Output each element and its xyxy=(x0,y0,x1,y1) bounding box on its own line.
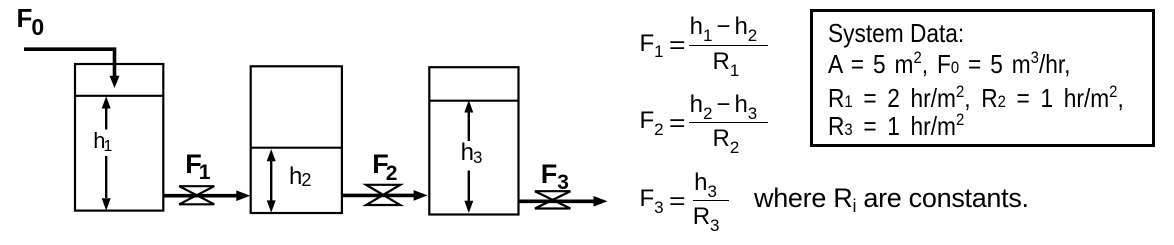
arrowhead flow F3 xyxy=(594,196,608,207)
liquid level line tank 2 xyxy=(251,147,342,149)
data line 4 xyxy=(828,113,964,143)
tank T3 xyxy=(429,67,518,214)
h2 gauge double arrow xyxy=(270,154,272,207)
label F1 xyxy=(185,151,210,178)
equation 3 lhs: F3 = xyxy=(640,187,683,211)
arrowhead flow F2 xyxy=(414,190,428,201)
h3 gauge arrow up segment xyxy=(468,106,470,141)
label F2 xyxy=(372,151,397,178)
arrowhead h1 up xyxy=(102,96,111,108)
arrowhead h2 up xyxy=(267,149,276,161)
data line 2 xyxy=(828,51,1070,81)
label h3 xyxy=(461,141,483,165)
arrowhead h3 up xyxy=(464,100,473,112)
system data box xyxy=(810,9,1155,147)
valve V3 xyxy=(535,191,571,208)
tank T2 xyxy=(251,66,342,213)
wire: flow F1 from tank1 to tank2 xyxy=(163,194,238,198)
arrowhead h3 down xyxy=(464,201,473,213)
wire: flow F2 from tank2 to tank3 xyxy=(342,194,415,198)
valve V2 xyxy=(366,185,400,205)
label F0 xyxy=(17,5,45,31)
arrowhead: F0 inflow down xyxy=(110,76,120,88)
liquid level line tank 3 xyxy=(429,100,518,102)
equation 3 fraction h3/R3 xyxy=(693,171,729,229)
h1 gauge arrow up segment xyxy=(105,102,107,130)
data line 1 xyxy=(828,20,964,46)
note: where Ri are constants. xyxy=(754,185,1029,212)
wire: F0 inflow elbow into tank 1 xyxy=(24,49,115,77)
h1 gauge arrow down segment xyxy=(105,156,107,198)
label h2 xyxy=(289,165,311,189)
equation 1 lhs: F1 = xyxy=(640,32,683,56)
arrowhead h1 down xyxy=(102,198,111,210)
equation 2 lhs: F2 = xyxy=(640,109,683,133)
label h1 xyxy=(93,130,112,152)
tank T1 xyxy=(75,64,163,211)
arrowhead h2 down xyxy=(267,200,276,212)
data line 3 xyxy=(828,85,1124,115)
equation 1 fraction (h1-h2)/R1 xyxy=(689,15,769,73)
valve V1 xyxy=(179,186,214,204)
wire: flow F3 out of tank3 xyxy=(519,200,595,204)
label F3 xyxy=(541,161,569,188)
equation 2 fraction (h2-h3)/R2 xyxy=(689,93,769,151)
liquid level line tank 1 xyxy=(75,95,163,97)
h3 gauge arrow down segment xyxy=(468,171,470,203)
arrowhead flow F1 xyxy=(236,190,250,201)
